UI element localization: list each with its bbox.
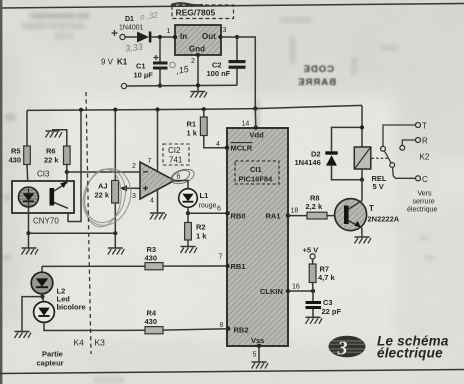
wire L2 cathode to R4	[44, 322, 145, 330]
labels K4 K3	[74, 338, 106, 348]
node relay top lead	[360, 125, 364, 129]
wire Vdd pin column	[254, 109, 257, 128]
LED L2 bicolore bottom	[34, 302, 55, 323]
handwritten mark 0,15 near C1	[170, 62, 191, 76]
title Le schema electrique	[377, 334, 449, 361]
switch K2 contact R	[400, 137, 428, 151]
pin 8 RB2	[220, 322, 231, 331]
node CLKIN/R7/C3	[311, 289, 315, 293]
voltage regulator 7805	[175, 25, 221, 55]
main +5V rail	[27, 105, 362, 110]
wire emitter column x81	[68, 110, 81, 222]
wire RA1 to R8	[288, 215, 307, 217]
wire regulator Gnd pin down	[197, 55, 199, 91]
LED L2 bicolore top	[31, 272, 85, 311]
pin 6 op-amp with scribble	[169, 167, 196, 187]
ground under Vss	[252, 362, 269, 369]
resistor R3 430	[145, 245, 164, 270]
wire CLKIN to node	[288, 290, 313, 292]
pin 18 RA1	[286, 208, 299, 218]
potentiometer AJ 22k	[95, 181, 141, 234]
node junction rail/pin7	[155, 107, 159, 111]
wire R5 to CI3 LED	[27, 165, 28, 189]
wire ground link under CNY70	[29, 232, 116, 234]
microcontroller CI1 PIC16F84	[227, 128, 288, 346]
dashed link relay to switch	[372, 157, 388, 159]
wire CNY70 LED cathode down	[28, 207, 30, 233]
wire R4 to RB2	[163, 329, 228, 330]
resistor R4 430	[145, 309, 164, 334]
relay REL 5V coil	[354, 147, 387, 191]
capacitor C2 100nF	[207, 35, 246, 85]
transistor T 2N2222A	[335, 199, 400, 237]
capacitor C3 22pF	[306, 291, 342, 317]
wire rail to AJ top	[114, 110, 116, 181]
badge numero 3	[329, 336, 366, 360]
label Partie capteur	[37, 350, 64, 368]
label REG/7805 dashed box	[172, 5, 234, 19]
junction node rail/Vdd	[253, 107, 257, 111]
pin 2 regulator	[191, 53, 200, 65]
pin 4 MCLR	[216, 141, 229, 150]
ground under transistor	[355, 237, 372, 244]
connector K1 9V input	[101, 30, 128, 89]
ground below regulator	[191, 92, 208, 98]
node LED/ground rail	[26, 231, 30, 235]
wire L1 to RB0 node	[187, 207, 189, 213]
LED inside CNY70	[19, 187, 39, 207]
node relay bottom lead	[360, 178, 364, 182]
ground symbol above R6	[46, 130, 67, 146]
optocoupler CI3 CNY70 box	[12, 170, 74, 226]
switch K2 contact T	[381, 122, 427, 152]
resistor R5 430	[9, 146, 31, 165]
pencil scribble around AJ	[75, 162, 138, 232]
pin 7 RB1	[219, 254, 230, 269]
dashed separation line K4/K3	[86, 92, 91, 354]
pin 16 CLKIN	[286, 284, 300, 294]
wire rail to relay	[361, 105, 363, 147]
resistor R2 1k	[185, 213, 208, 246]
ground left of L2	[15, 332, 32, 339]
diode D1 1N4001	[119, 16, 175, 43]
node junction rail/AJ	[113, 108, 117, 112]
page bottom border rule	[0, 370, 464, 374]
switch K2 lever and common C	[384, 151, 428, 184]
label CI2 741 dashed box	[163, 144, 189, 165]
wire R3 to RB1	[163, 265, 228, 267]
wire regulator Out to +5V corner	[221, 37, 256, 109]
wire rail left end down to R5	[26, 110, 28, 146]
diode D2 1N4146	[295, 127, 363, 179]
page top border rule	[0, 4, 464, 9]
ground under CNY70	[22, 233, 39, 254]
wire L2 anode to R3 rail	[41, 266, 43, 272]
wire op-amp pin 4 down	[157, 191, 159, 213]
node junction rail x81	[79, 108, 83, 112]
pin 1 regulator	[167, 28, 178, 39]
capacitor C1 10uF	[134, 35, 168, 88]
label CI1 dashed box	[235, 161, 279, 184]
LED L1 rouge	[179, 189, 217, 210]
ground under AJ	[108, 233, 125, 254]
node AJ/ground rail	[113, 231, 117, 235]
wire rail to op-amp pin 7	[157, 110, 159, 171]
ground under R2	[181, 247, 198, 254]
handwritten stroke over REG box	[171, 3, 203, 5]
wire R8 to base	[327, 215, 344, 217]
wire Vss to ground	[258, 346, 260, 362]
resistor R6 22k	[44, 146, 70, 165]
label Vers serrure electrique	[407, 191, 437, 214]
resistor R7 4.7k	[309, 264, 335, 291]
ground under op-amp	[150, 213, 167, 220]
wire op-amp output to L1	[175, 181, 189, 190]
ground under C3	[306, 317, 323, 324]
node L1/R2/RB0	[186, 211, 190, 215]
+5V terminal	[303, 246, 319, 265]
wire RB0	[188, 212, 228, 214]
node R6/collector junction	[65, 170, 69, 174]
ground wire from K1 minus to C2	[127, 84, 237, 87]
resistor R1 1k	[187, 107, 208, 137]
resistor R8 2.2k	[306, 194, 328, 220]
op-amp U1 741 triangle	[140, 162, 175, 199]
pin 5 Vss	[253, 344, 262, 359]
pin 3 regulator	[218, 27, 226, 39]
wire R1 to MCLR	[204, 136, 227, 148]
wire R3 line left	[42, 265, 145, 267]
wire R6 bottom to node	[66, 165, 68, 173]
phototransistor inside CNY70	[50, 172, 69, 208]
pin 14 Vdd	[242, 121, 259, 130]
wire relay to transistor collector	[361, 169, 363, 200]
node between L2 leds	[22, 294, 45, 331]
pin 6 RB0	[217, 206, 230, 216]
page left edge line	[0, 0, 2, 384]
wire node to op-amp pin2	[67, 171, 140, 173]
